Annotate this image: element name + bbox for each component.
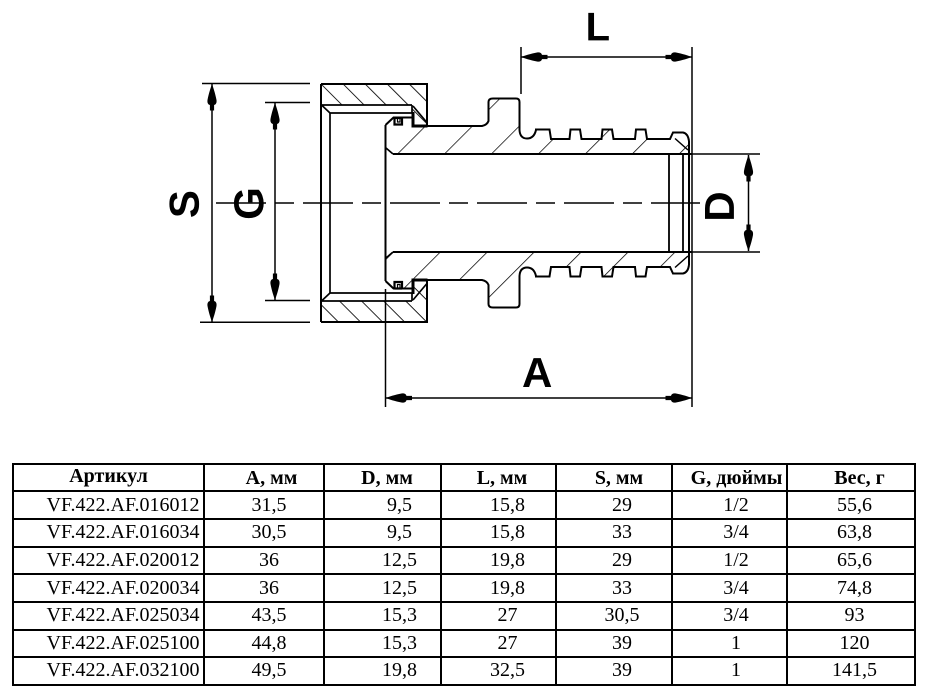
nut outline bbox=[321, 84, 427, 322]
label G bbox=[234, 190, 264, 218]
label S bbox=[169, 192, 199, 217]
label A bbox=[523, 358, 551, 387]
arrow L left bbox=[521, 52, 548, 61]
arrow S bottom bbox=[207, 296, 216, 323]
right end edge bbox=[688, 141, 690, 265]
arrow G bottom bbox=[270, 274, 279, 301]
dimension L extension lines and line bbox=[521, 47, 692, 407]
arrow A right bbox=[666, 393, 693, 402]
thread tooth bottom bbox=[395, 282, 403, 289]
body wall hatched top bbox=[386, 99, 690, 155]
thread tooth top bbox=[395, 118, 403, 125]
nut chamfer thread lines bbox=[322, 105, 427, 301]
arrow D bottom bbox=[744, 225, 753, 252]
dimension S extension lines and line bbox=[200, 84, 310, 323]
arrow A left bbox=[386, 393, 413, 402]
arrow S top bbox=[207, 84, 216, 111]
body wall hatched bottom bbox=[386, 252, 690, 308]
bead chamfer diagonals bbox=[675, 139, 688, 268]
arrow L right bbox=[666, 52, 693, 61]
bore chamfer at end face bbox=[386, 148, 393, 258]
nut step notch thick top bbox=[413, 112, 428, 126]
centerline bbox=[216, 202, 700, 204]
bead inner verticals bbox=[669, 154, 683, 252]
body outline top bbox=[386, 99, 690, 142]
bore lines + D extension bbox=[393, 154, 692, 252]
dimension D line bbox=[748, 155, 750, 251]
arrow D top bbox=[744, 155, 753, 182]
label D bbox=[705, 193, 734, 219]
label L bbox=[588, 13, 609, 41]
dimension A extension lines and line bbox=[386, 289, 693, 407]
body outline bottom bbox=[386, 265, 690, 308]
dimension G extension lines and line bbox=[265, 103, 310, 301]
nut hatched band top bbox=[321, 84, 427, 126]
nut step notch thick bottom bbox=[413, 280, 428, 294]
end face bbox=[385, 125, 387, 281]
arrow G top bbox=[270, 103, 279, 130]
nut hatched band bottom bbox=[321, 280, 427, 322]
